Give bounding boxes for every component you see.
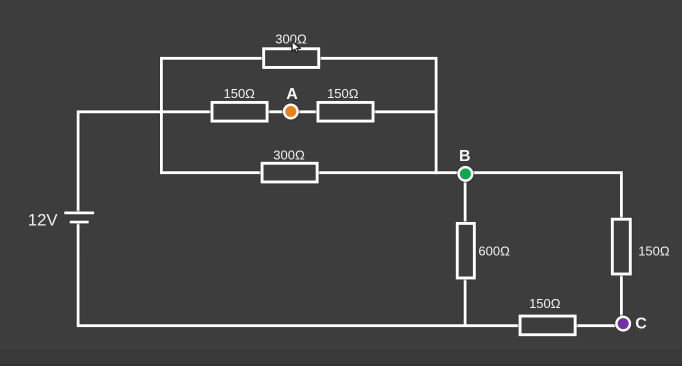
node C (purple): [616, 317, 630, 331]
svg-text:150Ω: 150Ω: [327, 86, 359, 101]
svg-text:150Ω: 150Ω: [529, 296, 561, 311]
wire: middle row from battery to right branch: [78, 112, 436, 214]
node B (green): [459, 167, 473, 181]
battery V1 plates: [63, 211, 95, 225]
mouse cursor: [292, 41, 300, 52]
svg-text:600Ω: 600Ω: [478, 243, 510, 258]
resistor R6 150ohm vertical right: [612, 219, 630, 274]
resistor shadow halos: [212, 49, 630, 335]
resistor R3 150ohm middle-right: [318, 102, 373, 121]
resistor R5 600ohm vertical: [457, 223, 474, 278]
svg-text:300Ω: 300Ω: [273, 148, 305, 163]
svg-text:12V: 12V: [28, 211, 59, 230]
svg-text:C: C: [635, 315, 647, 332]
wire: 600 ohm column from node B to bottom rail: [464, 173, 467, 326]
wire shadow halos: [78, 58, 622, 325]
svg-text:150Ω: 150Ω: [638, 243, 670, 258]
resistor R4 300ohm bottom row: [262, 163, 317, 182]
svg-text:A: A: [286, 86, 298, 103]
svg-text:300Ω: 300Ω: [275, 31, 307, 46]
wire: left branch vertical + top row + right branch vertical: [161, 58, 436, 174]
resistor R1 300ohm top: [264, 49, 319, 68]
node A (orange): [284, 105, 298, 119]
wire: battery negative down and bottom rail to node C: [78, 222, 622, 326]
svg-text:150Ω: 150Ω: [223, 86, 255, 101]
resistor R7 150ohm bottom rail: [520, 316, 575, 335]
resistor R2 150ohm middle-left: [212, 102, 267, 121]
wire: bottom parallel row through node B then right column down: [161, 173, 621, 325]
svg-text:B: B: [459, 148, 471, 165]
